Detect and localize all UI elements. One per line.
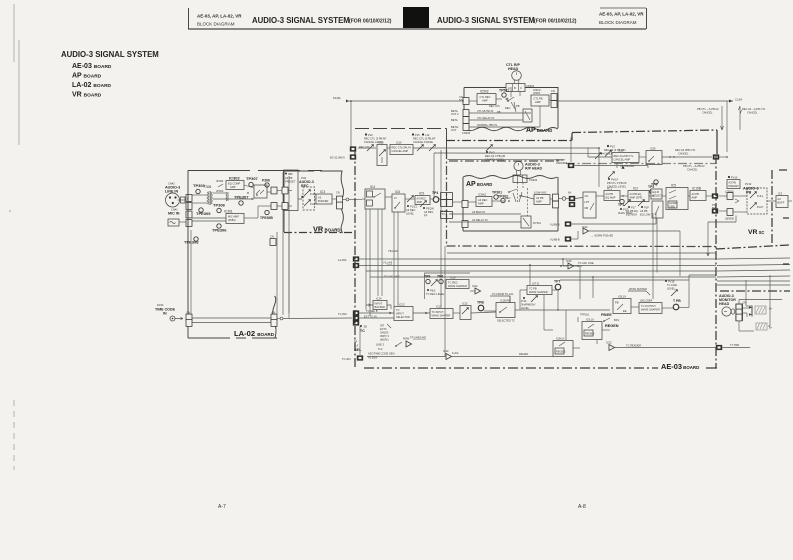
wire normal pb in [469,106,540,127]
svg-text:REC CTL (3 PB,AP: REC CTL (3 PB,AP [413,137,436,141]
LA-02 board label [234,329,275,338]
test point TPE309 [184,237,199,245]
IC8 19 box [613,295,631,314]
svg-text:IC9: IC9 [419,192,424,196]
svg-text:LEVEL: LEVEL [521,306,530,310]
svg-text:IC19: IC19 [450,276,456,280]
pads ap2 right [568,191,575,208]
connector cells recrow right [441,193,453,200]
svg-text:P5/2W: P5/2W [426,207,434,211]
svg-text:3B0: 3B0 [288,172,293,176]
svg-text:TPB: TPB [477,301,484,305]
svg-text:(MLR)1: (MLR)1 [380,338,389,342]
svg-text:TP501: TP501 [499,89,509,93]
svg-text:T7,TRB: T7,TRB [730,343,739,347]
pad cancel right [713,154,719,159]
svg-text:PRESET: PRESET [285,180,296,184]
tc pb wave shaper [527,282,552,295]
IC14 input buffer [373,297,387,310]
wire tc in chain [359,309,496,318]
svg-text:T PB: T PB [673,299,681,303]
svg-text:PB CTL P PB AP: PB CTL P PB AP [607,181,627,185]
board boundary monitor top [720,290,790,292]
pot cancel level [367,145,373,151]
svg-text:AP BOARD: AP BOARD [72,73,102,80]
connector CN2 XLR jack [166,193,186,207]
label pv10 preset [727,176,740,189]
svg-text:EQ COMP: EQ COMP [228,182,241,186]
opamp IC22 norm [571,225,680,239]
SEC-RECROW [362,185,453,316]
connector ap1 right out [551,89,557,107]
wire mon head [739,300,782,332]
svg-text:AUDIO-3 SIGNAL SYSTEM: AUDIO-3 SIGNAL SYSTEM [252,16,350,25]
svg-text:IC4: IC4 [370,185,375,189]
wire yb lane label [388,249,398,253]
pad vl6b [550,221,571,226]
svg-text:A3 PB: A3 PB [536,196,544,200]
svg-text:VL/6B-B: VL/6B-B [550,238,560,242]
svg-text:JP304: JP304 [216,179,224,183]
SEC-VR1 [260,170,362,245]
svg-text:SELECTOR: SELECTOR [396,315,410,319]
wire pad to vert [719,156,728,158]
wire cancel drop 599 [598,148,600,187]
svg-text:REC CTL (3 PB AP: REC CTL (3 PB AP [364,137,387,141]
svg-text:TC,464: TC,464 [342,357,351,361]
svg-text:BC-52,066-5: BC-52,066-5 [330,156,345,160]
svg-text:LT: LT [394,196,397,200]
svg-text:IN: IN [163,312,167,316]
preset block vr1 [284,170,299,211]
wire bias dash [527,188,529,216]
svg-text:AP BOARD: AP BOARD [466,181,492,188]
SEC-BOUNDS [283,130,790,371]
wire mic path [192,206,271,221]
wire ap1 ctl path [469,87,551,114]
board boundary right top dash [572,130,717,154]
test point TP301 [492,191,502,200]
IC50 box [646,147,662,165]
svg-text:AMP: AMP [536,200,542,204]
connector CN1 MIC jack [168,219,179,226]
label pv12 audio3 pb [743,182,759,195]
test point TP303 [193,183,206,194]
svg-text:IC16: IC16 [396,141,402,145]
svg-text:A3 REV: A3 REV [424,210,433,214]
flex cable 2 [756,323,767,330]
svg-text:CTL PB: CTL PB [534,97,543,101]
svg-text:CN: CN [270,235,274,239]
svg-text:TP9: TP9 [424,275,430,279]
IC301b a3 rec amp [476,193,492,207]
svg-text:CN302: CN302 [462,131,471,135]
pad la36a [338,256,393,264]
svg-text:AE-03, AP, LA-02, VR: AE-03, AP, LA-02, VR [197,14,242,19]
connector CN2 AUDIO-3 LINE IN label [165,182,180,194]
svg-text:OUT 2: OUT 2 [451,112,459,116]
label pb eq pots [624,200,651,217]
wire ctl relay in 2 [469,116,523,120]
svg-text:TP6: TP6 [437,275,443,279]
svg-text:AUDIO-3 SIGNAL SYSTEM: AUDIO-3 SIGNAL SYSTEM [437,16,535,25]
IC501 ctl pb amp [531,88,549,106]
IC18 cancel amp [612,149,639,163]
test point TPE30B [260,210,273,220]
SEC-PBCHAIN [583,180,718,224]
svg-text:EXT TC IN: EXT TC IN [364,314,377,318]
svg-text:63,06L: 63,06L [333,96,341,100]
svg-text:MIC AMP: MIC AMP [228,215,239,219]
SEC-INPUT [165,176,273,245]
connector cells vr2 [725,190,735,221]
CTL R/P head [512,71,522,84]
wire long vert 441 [440,150,442,308]
label to from tc [490,292,514,303]
wire bus tc1 [359,258,790,259]
label tp line [410,336,426,340]
pads tc in [338,310,359,325]
svg-text:LPT: LPT [585,200,590,204]
wire tc mid [484,290,610,311]
label bias rev [420,201,434,218]
svg-text:LA,36A: LA,36A [338,258,347,262]
svg-text:REGEN: REGEN [556,350,565,354]
svg-text:B: B [514,86,516,90]
svg-text:TC PB: TC PB [529,287,537,291]
coil L301 [226,192,228,201]
SEC-MONHEAD [719,275,790,331]
svg-text:AMP (3PF): AMP (3PF) [630,196,643,200]
svg-text:IC8,19: IC8,19 [618,295,626,299]
SEC-AE03 [367,258,750,359]
svg-text:P/12: P/12 [521,299,527,303]
wire ic14 [366,304,391,309]
svg-text:TO A3C LINE: TO A3C LINE [578,261,594,265]
svg-text:PV/LF: PV/LF [611,178,619,182]
svg-text:CANCEL PHASE: CANCEL PHASE [413,140,433,144]
test point TP30B [262,179,270,188]
svg-text:TC OUTPUT: TC OUTPUT [641,304,656,308]
svg-text:AMP: AMP [692,196,698,200]
svg-text:CN: CN [743,301,747,305]
wire pb ctl cancel feed [448,159,566,161]
test point TP4 [432,191,439,202]
svg-text:AMP: AMP [535,100,541,104]
connector cell la02 link [270,235,276,246]
connector cells vr1 row1 [271,187,288,194]
svg-text:IC50: IC50 [650,147,656,151]
left title block [61,50,159,99]
svg-text:PV12: PV12 [745,182,752,186]
svg-text:FULL: FULL [757,194,764,198]
test point TPE305 [196,208,211,216]
wire vr1 internal [277,191,337,207]
wire cancel arrows right [697,106,766,130]
svg-text:TO FROM TC-1A1: TO FROM TC-1A1 [492,292,514,296]
IC502 ctl rec amp [477,90,496,105]
svg-text:IC6: IC6 [395,190,400,194]
SEC-TC [338,256,790,361]
svg-text:VR SC: VR SC [748,229,764,236]
EQ-B select [651,189,663,199]
svg-text:(FOR 00/10/02/12): (FOR 00/10/02/12) [534,19,577,25]
IC302b a3 pb amp [534,191,550,205]
svg-text:CTL REC: CTL REC [480,95,491,99]
svg-text:PB: PB [516,104,520,108]
AP board 1 label [526,127,552,134]
svg-text:AMP: AMP [230,185,236,189]
svg-text:BLOCK DIAGRAM: BLOCK DIAGRAM [197,22,235,27]
svg-text:IC1B,PB: IC1B,PB [500,299,510,303]
svg-text:MIC IN: MIC IN [168,212,180,216]
IC19 tc rec wave shaper [446,276,469,289]
wire bus tc3 [366,270,790,279]
opamp IC22b [470,284,481,294]
svg-text:REC A3+PB CTL: REC A3+PB CTL [614,154,634,158]
IC1B pb switch [496,299,515,318]
svg-text:A3 PB: A3 PB [606,192,614,196]
svg-text:AP BOARD: AP BOARD [526,127,552,134]
svg-text:TC REC: TC REC [448,281,458,285]
wire bundle down [366,209,398,316]
svg-text:TC: TC [396,308,400,312]
wire bus tc2 [359,261,790,266]
pad la36a2 [353,263,359,268]
svg-text:REGEN: REGEN [519,352,528,356]
test point TP302 [498,195,508,203]
svg-text:REC: REC [505,196,511,200]
test point TP308 [213,203,226,213]
IC303 rec mute switch [254,185,267,198]
wire 63,06L top bus [333,96,464,103]
svg-text:5M: 5M [712,206,716,210]
svg-text:3HARMONY: 3HARMONY [521,303,536,307]
svg-text:Y0,LA/6: Y0,LA/6 [383,261,393,265]
wire bus to monitor [746,275,770,326]
svg-text:CTL MUTE IN: CTL MUTE IN [477,109,493,113]
svg-text:PB/EE: PB/EE [601,313,612,317]
svg-text:CL/5A: CL/5A [735,98,742,102]
svg-text:REGEN: REGEN [585,332,594,336]
IC3 A3 buffer [316,190,332,204]
connector cells vr1 out [336,191,343,209]
svg-text:REC A3→A-PB CTL: REC A3→A-PB CTL [742,107,766,111]
board boundary VR2 bottom [716,245,790,249]
svg-text:T306: T306 [204,185,211,189]
svg-text:TP307: TP307 [246,176,259,181]
label tpp j [578,313,590,323]
svg-text:VR BOARD: VR BOARD [72,92,102,99]
wire vert drops tc [510,258,597,344]
pads pb out [712,193,718,213]
svg-text:A-7: A-7 [218,504,226,510]
wire a3 relay in [449,218,521,222]
svg-text:REC A3 3 PB AM: REC A3 3 PB AM [485,154,505,158]
svg-text:R/P HEAD: R/P HEAD [525,167,543,171]
svg-text:TP4: TP4 [432,191,438,195]
svg-text:IC502: IC502 [480,90,489,94]
wire regen paths [367,330,716,357]
jumper JP304 [216,179,224,187]
test point TP1 [618,199,624,207]
svg-text:TP,LINE/LINE: TP,LINE/LINE [410,336,426,340]
svg-text:IC20: IC20 [566,259,572,263]
svg-text:WAVE SHAPER: WAVE SHAPER [432,314,451,318]
svg-text:CANCEL AMP: CANCEL AMP [392,149,409,153]
svg-text:TC INPUT: TC INPUT [432,310,444,314]
svg-text:IC9,19: IC9,19 [586,318,594,322]
test point TP501 [499,89,509,98]
svg-text:WAVE SHAPER: WAVE SHAPER [448,284,467,288]
IC6 switch [392,190,405,212]
svg-text:AMP: AMP [417,200,423,204]
svg-text:IC9A,N: IC9A,N [556,337,564,341]
label p15 cancel phase [412,133,436,144]
svg-text:NR: NR [585,206,589,210]
svg-text:P1/23: P1/23 [410,205,417,209]
svg-text:TP303: TP303 [193,183,206,188]
svg-text:IC302: IC302 [229,176,240,181]
IC15B a3 pb amp [690,187,706,201]
IC16 cancel amp [390,141,413,155]
svg-text:A3 REC: A3 REC [406,208,415,212]
tc output wave shaper [639,299,662,314]
pot rec level [406,196,417,216]
svg-text:3DPV 3: 3DPV 3 [380,334,389,338]
svg-text:LB3606: LB3606 [725,217,735,221]
svg-text:REC CTL/3PLAY: REC CTL/3PLAY [392,146,412,150]
IC301 mic amp [224,210,244,224]
IC302 EQ comp amp [226,176,244,190]
svg-text:(4580): (4580) [228,218,236,222]
IC9 19 regen box [582,318,602,340]
svg-text:A3 REC: A3 REC [478,198,487,202]
svg-text:CN: CN [187,311,191,315]
svg-text:L12: L12 [425,133,430,137]
connector CN ctl head [506,83,535,92]
svg-text:A3 PB EQ: A3 PB EQ [630,192,642,196]
svg-text:AUDIO-3 SIGNAL SYSTEM: AUDIO-3 SIGNAL SYSTEM [61,50,159,59]
IC9 a3 rec amp [415,192,430,205]
svg-text:IC503: IC503 [533,91,540,95]
AP board 1 outline [464,88,558,131]
svg-text:PV/2: PV/2 [489,151,495,155]
wire vert 351 [350,100,352,147]
svg-text:P10: P10 [368,133,373,137]
svg-text:A3 CANCEL: A3 CANCEL [620,164,635,168]
connector cells la02 in [186,311,192,327]
LA-02 board outline [188,171,322,339]
wire ap2 to pb chain [550,198,583,200]
svg-text:O+: O+ [769,307,773,311]
svg-text:DATA: DATA [157,303,164,307]
AP board 2 label [466,181,492,188]
connector R/P head [513,175,538,202]
svg-text:LEVEL: LEVEL [667,287,676,291]
svg-text:IC3: IC3 [778,192,783,196]
connector time code jack [170,316,175,321]
transformer T306 [204,185,213,205]
jumper JP303 [216,189,224,193]
svg-text:IC301: IC301 [224,210,233,214]
IC15 box right [460,302,471,320]
svg-text:A3 BIAS IN: A3 BIAS IN [472,210,485,214]
svg-text:REC CTL: REC CTL [489,104,501,108]
pad tc reader [716,343,750,350]
test point TPT [554,280,561,290]
pot rec a3 cancel [485,145,505,162]
opamp IC22c [443,349,459,360]
svg-text:IC22: IC22 [472,284,478,288]
switch pb ee [601,313,619,322]
svg-text:TC READER: TC READER [626,344,641,348]
svg-text:TC,36A: TC,36A [338,312,347,316]
VR board 2 label [748,229,764,236]
SEC-AP1 [333,63,766,152]
test point TP307 [246,176,259,187]
svg-text:K-2/A: K-2/A [452,351,459,355]
label ph2 audio3 rec [299,176,314,188]
svg-text:WAVE SHAPER: WAVE SHAPER [529,290,548,294]
svg-text:PRESET: PRESET [729,184,740,188]
svg-text:BK3: BK3 [614,318,619,322]
wire tc out [631,275,716,308]
connector ap2 right cells [553,194,566,208]
svg-text:TC LINE: TC LINE [667,283,677,287]
transistor vr2 [735,199,739,203]
wire right bus lines [560,280,790,285]
svg-text:REC CTL: REC CTL [359,145,371,149]
svg-text:CANCEL: CANCEL [747,111,758,115]
svg-text:A3 PB: A3 PB [640,209,648,213]
connector monitor head [736,301,747,321]
svg-text:EQ HIGH: EQ HIGH [626,213,637,217]
svg-text:LEVEL: LEVEL [406,212,415,216]
svg-text:PB CTL→A-PB A3: PB CTL→A-PB A3 [683,164,705,168]
pad bc52 [330,154,356,159]
connector column CN301 [186,195,192,227]
svg-text:WAVE SHAPER: WAVE SHAPER [641,308,660,312]
svg-text:IC15: IC15 [462,302,468,306]
AUDIO-3 monitor head label [719,294,736,306]
label regen right [605,324,619,328]
svg-text:IC3: IC3 [320,190,325,194]
svg-text:TPE305: TPE305 [196,211,211,216]
cancel block outline [355,129,447,151]
relay ap1 [523,109,532,122]
svg-text:A3: A3 [778,197,782,201]
SEC-AP2 [440,137,680,242]
wire eq path [213,185,273,200]
connector TIME CODE IN label [155,303,176,316]
svg-text:PB CTL→A-PB A3: PB CTL→A-PB A3 [697,107,719,111]
svg-text:RY301: RY301 [533,221,541,225]
svg-text:IC13: IC13 [399,303,405,307]
svg-text:IC3b01: IC3b01 [478,193,487,197]
svg-text:IC23: IC23 [606,341,612,345]
svg-text:PV10: PV10 [731,176,738,180]
IC10 cancel [377,141,387,166]
IC1 a3 pb eq amp [604,187,620,201]
svg-text:A3: A3 [318,196,322,200]
svg-text:A3 EEN: A3 EEN [368,356,377,360]
svg-text:IC5: IC5 [671,184,676,188]
svg-text:INPUT: INPUT [375,302,383,306]
svg-text:SELECTED TC: SELECTED TC [497,319,515,323]
IC5 norm/cmd switch [666,184,688,210]
svg-text:BUFFER: BUFFER [375,305,386,309]
